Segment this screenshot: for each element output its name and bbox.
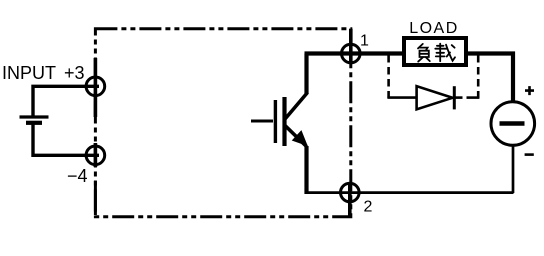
svg-text:INPUT: INPUT [2,63,56,83]
source V1 circle [491,102,535,146]
diode D1 cathode bar [453,86,456,109]
wire solid stub through terminal 3 [94,58,98,117]
diode D1 triangle [417,86,453,109]
terminal 4 input - [86,146,105,165]
module boundary dash-dot box [95,29,350,217]
terminal 1 output [342,44,361,63]
wire solid stub through terminal 2 [348,182,352,217]
wire solid stub through terminal 1 [349,29,353,64]
transistor Q1 gate bar [274,100,277,143]
wire terminal 1 to load and source [305,54,514,103]
terminal 3 input + [86,77,105,96]
load box chinese text fu (load) [418,44,430,62]
svg-text:2: 2 [364,199,373,216]
wire battery bottom lead [33,123,99,155]
wire solid stub through terminal 4 [94,143,98,167]
svg-text:−4: −4 [67,166,88,186]
battery BT1 positive plate [20,115,49,118]
wire emitter to terminal 2 [305,191,514,194]
label - polarity [525,153,534,156]
label + polarity [525,86,534,95]
dashed connector left [387,55,390,98]
wire diode cathode [454,96,463,99]
wire source bottom [512,145,515,193]
terminal 2 output [341,183,360,202]
source V1 minus bar inside [500,121,525,126]
svg-text:1: 1 [360,33,369,50]
load box chinese text zai (carry) [435,44,455,62]
battery BT1 negative plate [26,121,42,125]
transistor Q1 emitter diagonal [285,126,307,147]
wire battery top lead [33,86,99,117]
svg-text:+3: +3 [64,63,85,83]
transistor Q1 gate lead [251,120,273,123]
wire emitter down [304,146,308,194]
wire solid stub bottom-left border corner [94,181,97,215]
load box [404,38,466,65]
wire collector to terminal 1 [306,54,308,149]
transistor Q1 collector diagonal [285,93,308,120]
svg-text:LOAD: LOAD [409,20,459,37]
wire diode anode [387,96,417,99]
dashed connector right [477,55,480,98]
transistor Q1 body bar [282,97,286,146]
transistor Q1 emitter arrow [293,131,307,145]
